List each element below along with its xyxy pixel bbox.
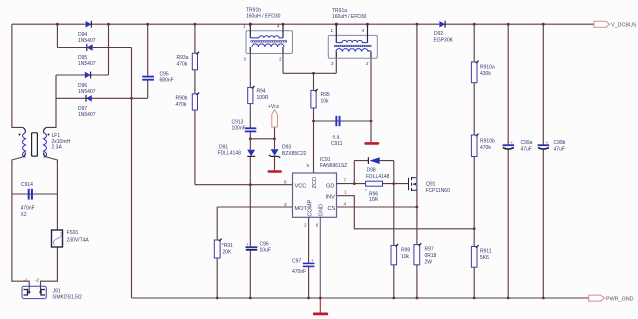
svg-text:CS: CS <box>328 206 336 212</box>
svg-text:4: 4 <box>277 24 280 29</box>
svg-text:D92: D92 <box>434 31 443 37</box>
wire AC branch to D95 <box>56 24 58 47</box>
svg-text:230V/T4A: 230V/T4A <box>67 238 90 244</box>
wire C95 bottom <box>147 79 149 98</box>
svg-text:GND: GND <box>318 204 324 216</box>
svg-text:INV: INV <box>326 195 336 201</box>
resistor R93a <box>177 52 200 70</box>
svg-text:10k: 10k <box>321 99 330 105</box>
svg-text:430k: 430k <box>480 71 491 77</box>
svg-text:4: 4 <box>344 202 347 207</box>
zener D93 <box>269 145 307 159</box>
wire C914 row <box>12 193 58 195</box>
connector J91 <box>22 278 82 301</box>
svg-text:+: + <box>246 242 249 247</box>
svg-text:FCP11N60: FCP11N60 <box>426 188 451 194</box>
wire VCC row <box>195 184 293 186</box>
power symbol +Vcc <box>268 104 280 127</box>
resistor R910b <box>471 134 495 157</box>
svg-text:*: * <box>365 188 367 193</box>
wire D93 top <box>274 139 276 149</box>
wire right coil bottom to fuse <box>47 157 58 230</box>
svg-text:C914: C914 <box>21 182 33 188</box>
wire right coil vertical <box>47 75 57 127</box>
wire C95 top <box>147 24 149 76</box>
wire top rail <box>12 23 594 25</box>
svg-text:1N5407: 1N5407 <box>78 89 96 95</box>
svg-text:-1: -1 <box>24 278 29 283</box>
svg-text:20K: 20K <box>223 250 233 256</box>
capacitor C914 <box>21 182 35 218</box>
wire D91 top <box>249 139 251 150</box>
wire D97 row <box>56 97 148 99</box>
svg-text:R99: R99 <box>401 248 410 254</box>
svg-text:2: 2 <box>279 57 282 62</box>
svg-text:1N5407: 1N5407 <box>78 112 96 118</box>
diode D97 <box>78 95 96 118</box>
wire CS row <box>337 206 417 208</box>
resistor R94 <box>248 86 269 104</box>
svg-text:160uH / EFD30: 160uH / EFD30 <box>246 14 281 20</box>
svg-text:100nF: 100nF <box>232 126 246 132</box>
wire R91 branch <box>216 207 218 298</box>
wire MOT row <box>217 206 292 208</box>
diode D94 <box>78 21 96 44</box>
wire aux row <box>283 72 336 74</box>
svg-text:8: 8 <box>284 180 287 185</box>
svg-text:+Vcc: +Vcc <box>268 104 280 110</box>
ground bar D93 <box>268 170 282 173</box>
svg-text:+: + <box>311 258 314 263</box>
wire fuse to J91 <box>41 247 58 293</box>
wire GND pin down <box>319 217 321 298</box>
svg-text:10R: 10R <box>369 197 379 203</box>
svg-text:2: 2 <box>366 61 369 66</box>
svg-text:VCC: VCC <box>295 184 307 190</box>
svg-text:7: 7 <box>344 178 347 183</box>
svg-text:-2: -2 <box>35 278 40 283</box>
wire source <box>416 190 418 298</box>
resistor R95 <box>311 89 330 108</box>
wire left coil bottom <box>12 157 29 294</box>
svg-text:680nF: 680nF <box>160 78 174 84</box>
svg-text:+: + <box>511 140 514 145</box>
svg-text:BZX85C22: BZX85C22 <box>282 151 307 157</box>
svg-text:X2: X2 <box>21 212 27 218</box>
svg-text:R911: R911 <box>480 249 492 255</box>
svg-text:100R: 100R <box>257 95 269 101</box>
svg-text:1: 1 <box>331 28 334 33</box>
diode D98 <box>366 157 390 180</box>
wire bottom rail <box>132 297 589 299</box>
svg-text:1N5407: 1N5407 <box>78 61 96 67</box>
svg-text:470k: 470k <box>176 102 187 108</box>
svg-text:ZCD: ZCD <box>312 177 318 189</box>
wire D98 right leg and R99 <box>393 161 395 298</box>
wire D96 row <box>56 74 109 76</box>
wire startup chain <box>194 24 196 185</box>
svg-text:*R91: *R91 <box>222 243 233 249</box>
svg-text:PWR_GND: PWR_GND <box>606 297 634 303</box>
ground bar aux <box>364 142 379 145</box>
wire TR91a pin3 down <box>335 58 337 74</box>
svg-text:1: 1 <box>344 190 347 195</box>
capacitor C911 n.a. <box>331 116 343 147</box>
svg-text:R90b: R90b <box>176 96 188 102</box>
wire TR91a pin2 down <box>370 58 372 121</box>
port PWR_GND <box>589 295 634 302</box>
wire GND to chassis <box>319 298 321 313</box>
wire minus vertical long <box>131 48 133 299</box>
capacitor C95 <box>142 72 173 84</box>
inductor LF1 common-mode choke <box>19 127 71 157</box>
wire divider <box>473 24 475 298</box>
wire C911 to ground <box>370 121 372 142</box>
resistor R910a <box>471 61 495 83</box>
svg-text:3: 3 <box>244 57 247 62</box>
wire TR91b pin2 down <box>282 54 284 74</box>
svg-text:47uF: 47uF <box>554 147 565 153</box>
svg-text:R910b: R910b <box>480 139 495 145</box>
resistor R911 <box>471 245 491 267</box>
resistor R90b <box>176 93 200 111</box>
svg-text:D98: D98 <box>367 168 376 174</box>
wire +Vcc drop <box>274 127 276 139</box>
svg-text:470k: 470k <box>480 145 491 151</box>
wire D96 cathode up <box>108 24 110 75</box>
transformer TR91b <box>243 8 293 62</box>
svg-text:R97: R97 <box>425 247 434 253</box>
resistor R91 <box>214 239 233 258</box>
svg-text:5K6: 5K6 <box>480 255 489 261</box>
svg-text:3: 3 <box>331 61 334 66</box>
svg-text:5: 5 <box>307 163 310 168</box>
svg-text:0R18: 0R18 <box>425 253 437 259</box>
wire COMP C97 <box>308 217 310 298</box>
svg-text:C99a: C99a <box>521 140 533 146</box>
wire C911 row <box>314 120 372 122</box>
diode D91 <box>218 145 256 157</box>
wire R94 to C913 <box>249 104 251 128</box>
wire D91 to VCC row <box>249 156 251 184</box>
svg-text:R93a: R93a <box>177 55 189 61</box>
wire TR91b pin3 to R94 <box>249 54 251 88</box>
svg-text:FS91: FS91 <box>67 230 79 236</box>
svg-text:C97: C97 <box>292 259 301 265</box>
wire vcc node row <box>250 138 274 140</box>
wire D95 row <box>57 47 131 49</box>
svg-text:6: 6 <box>316 223 319 228</box>
svg-text:2.3A: 2.3A <box>52 145 63 151</box>
port V_DCBUS <box>594 21 637 28</box>
capacitor C913 <box>232 120 257 133</box>
wire C913 to node <box>249 131 251 139</box>
svg-text:C911: C911 <box>331 141 343 147</box>
resistor R97 <box>414 243 437 265</box>
resistor R96 <box>365 181 383 203</box>
svg-text:Q91: Q91 <box>426 182 436 188</box>
wire INV feedback <box>337 196 475 229</box>
capacitor C97 <box>292 258 314 275</box>
capacitor C99a <box>503 140 533 153</box>
svg-text:+: + <box>546 140 549 145</box>
ground chassis bottom <box>313 313 328 316</box>
svg-text:FDLL4148: FDLL4148 <box>218 151 242 157</box>
diode D96 <box>78 72 96 95</box>
svg-text:10uF: 10uF <box>260 248 271 254</box>
wire left vertical <box>12 24 23 127</box>
svg-text:3: 3 <box>284 202 287 207</box>
wire D98 row <box>354 160 394 162</box>
diode D95 <box>78 44 96 67</box>
transformer TR91a <box>328 8 377 66</box>
capacitor C96 <box>246 242 271 254</box>
svg-text:FAN6961SZ: FAN6961SZ <box>320 163 347 169</box>
svg-text:MOT: MOT <box>295 206 308 212</box>
svg-text:EGP30K: EGP30K <box>434 38 454 44</box>
svg-text:2W: 2W <box>425 260 433 266</box>
svg-text:470nF: 470nF <box>292 269 306 275</box>
wire C96 branch <box>249 185 251 298</box>
svg-text:470k: 470k <box>177 62 188 68</box>
wire R95 top <box>313 73 315 90</box>
wire C99a branch <box>507 24 509 298</box>
fuse FS91 <box>52 230 90 247</box>
resistor R99 <box>391 244 410 265</box>
svg-text:4: 4 <box>362 28 365 33</box>
svg-text:GMKDS1,5/2: GMKDS1,5/2 <box>53 295 83 301</box>
svg-text:n.a.: n.a. <box>333 135 341 141</box>
svg-text:COMP: COMP <box>308 199 314 216</box>
svg-text:C99b: C99b <box>554 140 566 146</box>
svg-text:1: 1 <box>243 24 246 29</box>
svg-text:R94: R94 <box>257 89 266 95</box>
svg-text:D93: D93 <box>282 145 291 151</box>
svg-text:FDLL4148: FDLL4148 <box>366 174 390 180</box>
svg-text:47uF: 47uF <box>521 147 532 153</box>
svg-text:160uH / EFD30: 160uH / EFD30 <box>332 14 367 20</box>
transistor Q91 MOSFET <box>409 177 451 194</box>
svg-text:R95: R95 <box>321 92 330 98</box>
wire C99b branch <box>542 24 544 298</box>
svg-text:1N5407: 1N5407 <box>78 38 96 44</box>
svg-text:470nF: 470nF <box>21 206 35 212</box>
wire D93 to ground <box>274 156 276 170</box>
wire D98 left leg <box>353 161 355 184</box>
wire R95 bottom to ZCD <box>313 108 315 173</box>
wire drain <box>416 24 418 177</box>
capacitor C99b <box>538 140 566 153</box>
svg-text:10k: 10k <box>401 254 410 260</box>
svg-text:2: 2 <box>304 223 307 228</box>
IC U91 box <box>284 157 347 228</box>
svg-text:V_DCBUS: V_DCBUS <box>611 23 637 29</box>
svg-text:R910a: R910a <box>480 65 495 71</box>
svg-text:GD: GD <box>326 184 334 190</box>
wire GD row <box>337 183 409 185</box>
diode D92 <box>434 21 454 44</box>
